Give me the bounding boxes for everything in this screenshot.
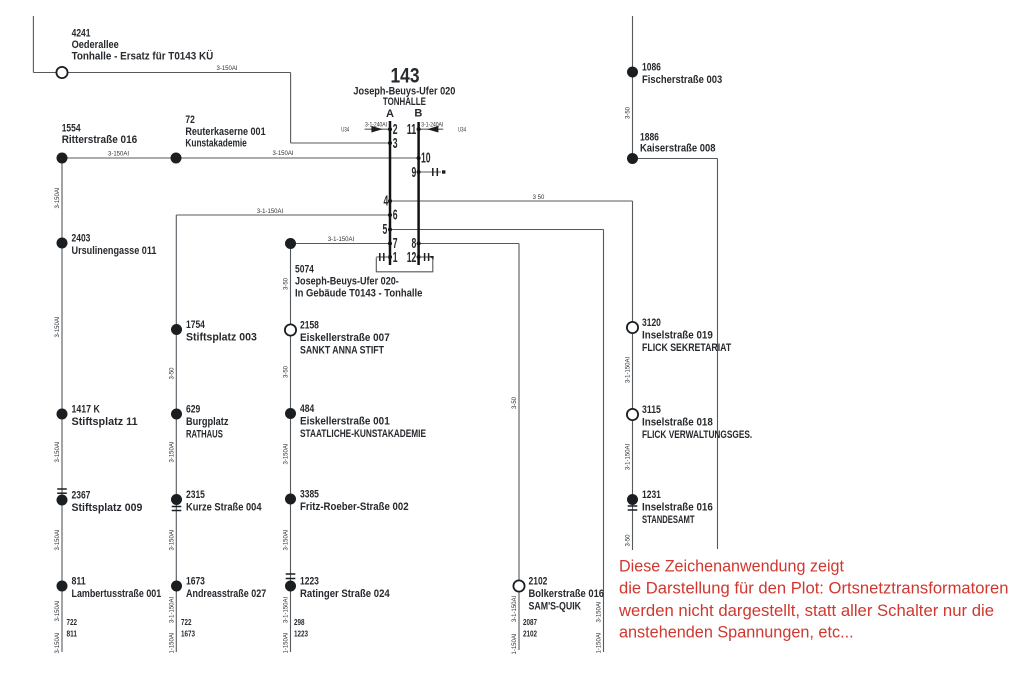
- svg-text:1673: 1673: [181, 630, 195, 639]
- svg-text:Stiftsplatz 11: Stiftsplatz 11: [72, 416, 138, 428]
- svg-text:3-150AI: 3-150AI: [55, 600, 61, 621]
- cable stub at node 1 with separation bars: [376, 256, 389, 258]
- svg-text:811: 811: [72, 576, 86, 588]
- svg-text:In Gebäude T0143 - Tonhalle: In Gebäude T0143 - Tonhalle: [295, 288, 422, 300]
- svg-text:Oederallee: Oederallee: [72, 39, 119, 51]
- svg-text:1231: 1231: [642, 489, 661, 501]
- svg-text:1223: 1223: [294, 630, 308, 639]
- svg-text:2403: 2403: [72, 233, 91, 245]
- svg-text:Burgplatz: Burgplatz: [186, 416, 229, 428]
- svg-text:Fischerstraße 003: Fischerstraße 003: [642, 74, 722, 86]
- svg-text:3-50: 3-50: [169, 367, 175, 380]
- svg-text:1223: 1223: [300, 576, 319, 588]
- svg-text:TONHALLE: TONHALLE: [383, 96, 426, 108]
- svg-text:FLICK VERWALTUNGSGES.: FLICK VERWALTUNGSGES.: [642, 429, 752, 441]
- svg-text:722: 722: [181, 618, 192, 627]
- svg-text:3-50: 3-50: [626, 534, 632, 547]
- svg-text:3-50: 3-50: [512, 396, 518, 409]
- svg-text:2102: 2102: [523, 630, 537, 639]
- svg-text:3-150AI: 3-150AI: [55, 441, 61, 462]
- node 4 on bus A: [388, 199, 392, 203]
- station 3385 Fritz-Roeber-Strasse 002: [285, 494, 296, 505]
- wire: node 8 branch y=243 with corner to x=519: [420, 243, 519, 245]
- node 5 on bus A: [388, 228, 392, 232]
- svg-text:722: 722: [67, 618, 78, 627]
- svg-text:3115: 3115: [642, 404, 661, 416]
- station 1554 Ritterstrasse 016: [57, 153, 68, 164]
- wire: into bus A node 3, y=143: [291, 142, 389, 144]
- wire: node 6 branch y=214 to corner x=176.5: [176, 214, 389, 216]
- node 11 on bus B: [417, 127, 421, 131]
- wire: Inselstrasse column vertical x=632.5: [632, 201, 634, 550]
- svg-text:Stiftsplatz 009: Stiftsplatz 009: [72, 502, 143, 514]
- svg-text:143: 143: [391, 65, 420, 88]
- svg-text:U34: U34: [458, 128, 466, 134]
- node 6 on bus A: [388, 213, 392, 217]
- svg-text:3-1-150AI: 3-1-150AI: [512, 595, 518, 622]
- svg-text:3-150AI: 3-150AI: [55, 187, 61, 208]
- station 72 Reuterkaserne 001 Kunstakademie: [171, 153, 182, 164]
- svg-text:3-150AI: 3-150AI: [169, 441, 175, 462]
- svg-text:die Darstellung für den Plot:: die Darstellung für den Plot: Ortsnetztr…: [619, 579, 1009, 598]
- svg-text:3-50: 3-50: [626, 106, 632, 119]
- svg-text:9: 9: [412, 165, 417, 181]
- svg-text:werden nicht dargestellt, stat: werden nicht dargestellt, statt aller Sc…: [618, 601, 994, 620]
- svg-text:3385: 3385: [300, 489, 319, 501]
- svg-text:Reuterkaserne 001: Reuterkaserne 001: [185, 126, 265, 138]
- svg-text:72: 72: [185, 114, 194, 126]
- svg-text:3-50: 3-50: [284, 277, 290, 290]
- svg-text:2367: 2367: [72, 490, 91, 502]
- svg-text:3-150AI: 3-150AI: [108, 152, 129, 158]
- svg-text:Tonhalle - Ersatz für T0143 KÜ: Tonhalle - Ersatz für T0143 KÜ: [72, 50, 214, 63]
- svg-text:anstehenden Spannungen, etc...: anstehenden Spannungen, etc...: [619, 622, 854, 641]
- svg-text:Lambertusstraße 001: Lambertusstraße 001: [72, 588, 162, 600]
- station 1417 K Stiftsplatz 11: [57, 409, 68, 420]
- svg-text:Ratinger Straße 024: Ratinger Straße 024: [300, 588, 390, 600]
- svg-text:Diese Zeichenanwendung zeigt: Diese Zeichenanwendung zeigt: [619, 557, 844, 576]
- svg-text:Joseph-Beuys-Ufer 020-: Joseph-Beuys-Ufer 020-: [295, 276, 399, 288]
- station 1886 Kaiserstrasse 008: [627, 153, 638, 164]
- station 2315 Kurze Strasse 004 with disconnect bars: [171, 494, 182, 505]
- svg-text:1754: 1754: [186, 319, 206, 331]
- svg-text:B: B: [414, 108, 422, 120]
- svg-text:3-1-150AI: 3-1-150AI: [626, 443, 632, 470]
- svg-text:SANKT ANNA STIFT: SANKT ANNA STIFT: [300, 345, 384, 357]
- svg-text:Bolkerstraße 016: Bolkerstraße 016: [529, 588, 605, 600]
- wire: vertical x=603.5: [603, 230, 605, 653]
- svg-text:4: 4: [384, 193, 389, 209]
- svg-text:3-150AI: 3-150AI: [55, 529, 61, 550]
- svg-text:3-1-240AI: 3-1-240AI: [421, 122, 443, 128]
- svg-text:Eiskellerstraße 007: Eiskellerstraße 007: [300, 332, 390, 344]
- feeder arrow into bus A (left), cable 3-1-240AI from U34: [365, 128, 389, 130]
- svg-text:6: 6: [393, 207, 398, 223]
- station 3115 Inselstrasse 018 FLICK VERWALTUNGSGES. (open circle): [627, 409, 638, 420]
- svg-text:Andreasstraße 027: Andreasstraße 027: [186, 588, 266, 600]
- svg-text:2158: 2158: [300, 320, 319, 332]
- svg-text:Kurze Straße 004: Kurze Straße 004: [186, 502, 262, 514]
- svg-text:4241: 4241: [72, 28, 91, 40]
- wire: node 7 branch y=243 to station 5074: [291, 243, 390, 245]
- svg-text:2087: 2087: [523, 618, 537, 627]
- svg-text:1417 K: 1417 K: [72, 404, 100, 416]
- busbar A of station 143: [389, 121, 392, 265]
- station 2158 Eiskellerstrasse 007 SANKT ANNA STIFT (open circle): [285, 324, 296, 335]
- svg-text:12: 12: [407, 250, 417, 266]
- wire: Oederallee horizontal y=72.5: [33, 72, 290, 74]
- svg-text:1: 1: [393, 250, 398, 266]
- svg-text:2102: 2102: [529, 576, 548, 588]
- svg-text:RATHAUS: RATHAUS: [186, 429, 223, 441]
- svg-text:3-1-150AI: 3-1-150AI: [169, 596, 175, 623]
- svg-text:629: 629: [186, 404, 200, 416]
- svg-text:Eiskellerstraße 001: Eiskellerstraße 001: [300, 416, 390, 428]
- svg-text:Kaiserstraße 008: Kaiserstraße 008: [640, 143, 716, 155]
- svg-text:Inselstraße 016: Inselstraße 016: [642, 502, 713, 514]
- station 1223 Ratinger Strasse 024 with disconnect bars: [285, 581, 296, 592]
- wire: node 5 branch y=227 with corner to x=603.5: [391, 229, 604, 231]
- cable stub at node 12 with separation bars: [420, 256, 433, 258]
- wire: second column vertical x=176.5: [175, 215, 177, 652]
- station 3120 Inselstrasse 019 FLICK SEKRETARIAT (open circle): [627, 322, 638, 333]
- svg-text:811: 811: [67, 630, 78, 639]
- node 8 on bus B: [417, 242, 421, 246]
- station 2367 Stiftsplatz 009 with disconnect bars: [57, 495, 68, 506]
- station 629 Burgplatz RATHAUS: [171, 409, 182, 420]
- svg-text:FLICK SEKRETARIAT: FLICK SEKRETARIAT: [642, 342, 731, 354]
- station 1673 Andreasstrasse 027: [171, 581, 182, 592]
- station 4241 Oederallee (open circle): [56, 67, 67, 78]
- svg-text:3-150AI: 3-150AI: [216, 66, 237, 72]
- svg-text:3-1-150AI: 3-1-150AI: [284, 596, 290, 623]
- svg-text:3 50: 3 50: [533, 195, 545, 201]
- svg-text:3-150AI: 3-150AI: [169, 529, 175, 550]
- node 2 on bus A: [388, 127, 392, 131]
- station 2102 Bolkerstrasse 016 SAMS-QUIK (open circle): [513, 580, 524, 591]
- wire: node 4 branch y=199.5 with corner to x=632.5: [391, 200, 633, 202]
- wire: third column vertical x=290.5: [290, 244, 292, 653]
- svg-text:3-150AI: 3-150AI: [272, 151, 293, 157]
- svg-text:3-150AI: 3-150AI: [284, 443, 290, 464]
- bracket loop linking node 1 and node 12 stubs: [376, 258, 433, 272]
- wire: left column vertical x=62: [61, 158, 63, 652]
- station 484 Eiskellerstrasse 001 STAATLICHE-KUNSTAKADEMIE: [285, 408, 296, 419]
- node 7 on bus A: [388, 242, 392, 246]
- cable stub at node 9 with separation bars: [420, 171, 441, 173]
- svg-text:3120: 3120: [642, 317, 661, 329]
- station 1231 Inselstrasse 016 STANDESAMT with disconnect bars: [627, 494, 638, 505]
- svg-text:Fritz-Roeber-Straße 002: Fritz-Roeber-Straße 002: [300, 501, 409, 513]
- svg-text:298: 298: [294, 618, 305, 627]
- svg-text:3-1-240AI: 3-1-240AI: [365, 122, 387, 128]
- svg-text:3-150AI: 3-150AI: [597, 601, 603, 622]
- node 1 on bus A: [388, 255, 392, 259]
- wire: Fischerstrasse feeder vertical x=632.5 top: [632, 16, 634, 159]
- svg-text:3-50: 3-50: [284, 365, 290, 378]
- node 10 on bus B: [417, 156, 421, 160]
- svg-text:3-150AI: 3-150AI: [55, 632, 61, 653]
- svg-text:Ritterstraße 016: Ritterstraße 016: [62, 134, 138, 146]
- wire: Oederallee feeder vertical drop top-left: [32, 16, 34, 73]
- svg-text:1086: 1086: [642, 62, 661, 74]
- svg-text:3-1-150AI: 3-1-150AI: [328, 237, 355, 243]
- svg-text:10: 10: [421, 151, 431, 167]
- svg-text:11: 11: [407, 122, 417, 138]
- svg-text:Kunstakademie: Kunstakademie: [185, 137, 246, 149]
- svg-text:1-150AI: 1-150AI: [512, 633, 518, 654]
- svg-text:1-150AI: 1-150AI: [169, 632, 175, 653]
- station 811 Lambertusstrasse 001: [57, 581, 68, 592]
- svg-text:3-1-150AI: 3-1-150AI: [626, 356, 632, 383]
- wire: Oederallee corner drop x=290.6: [290, 73, 292, 144]
- svg-text:STANDESAMT: STANDESAMT: [642, 514, 695, 526]
- feeder arrow into bus B (right), cable 3-1-240AI from U34: [420, 128, 443, 130]
- svg-text:1554: 1554: [62, 123, 82, 135]
- svg-text:1-150AI: 1-150AI: [597, 632, 603, 653]
- svg-text:5074: 5074: [295, 264, 315, 276]
- svg-text:3-150AI: 3-150AI: [55, 316, 61, 337]
- station 1086 Fischerstrasse 003: [627, 67, 638, 78]
- wire: Ritterstrasse/Reuterkaserne horizontal y=158 to bus B node 10: [62, 157, 418, 159]
- station 2403 Ursulinengasse 011: [57, 238, 68, 249]
- svg-text:SAM'S-QUIK: SAM'S-QUIK: [529, 601, 582, 613]
- svg-text:3: 3: [393, 136, 398, 152]
- svg-text:1-150AI: 1-150AI: [284, 632, 290, 653]
- node 9 on bus B: [417, 170, 421, 174]
- wire: Kaiserstrasse branch y=158.5 to corner x=717.5: [633, 158, 718, 160]
- svg-text:1673: 1673: [186, 576, 205, 588]
- svg-text:A: A: [386, 108, 394, 120]
- svg-text:3-1-150AI: 3-1-150AI: [257, 209, 284, 215]
- svg-text:Inselstraße 019: Inselstraße 019: [642, 330, 713, 342]
- svg-text:Stiftsplatz 003: Stiftsplatz 003: [186, 332, 257, 344]
- svg-text:2315: 2315: [186, 489, 205, 501]
- svg-text:STAATLICHE-KUNSTAKADEMIE: STAATLICHE-KUNSTAKADEMIE: [300, 428, 426, 440]
- svg-text:3-150AI: 3-150AI: [284, 529, 290, 550]
- svg-text:U34: U34: [341, 128, 349, 134]
- busbar B of station 143: [417, 122, 420, 265]
- station 1754 Stiftsplatz 003: [171, 324, 182, 335]
- node 12 on bus B: [417, 255, 421, 259]
- node 3 on bus A: [388, 141, 392, 145]
- svg-text:Inselstraße 018: Inselstraße 018: [642, 417, 713, 429]
- svg-text:484: 484: [300, 403, 315, 415]
- svg-text:Ursulinengasse 011: Ursulinengasse 011: [72, 245, 157, 257]
- wire: vertical x=717.5: [717, 159, 719, 550]
- junction 5074 Joseph-Beuys-Ufer 020 In Gebaeude T0143 Tonhalle: [285, 238, 296, 249]
- wire: Bolkerstrasse column vertical x=519: [518, 244, 520, 651]
- svg-text:5: 5: [383, 222, 388, 238]
